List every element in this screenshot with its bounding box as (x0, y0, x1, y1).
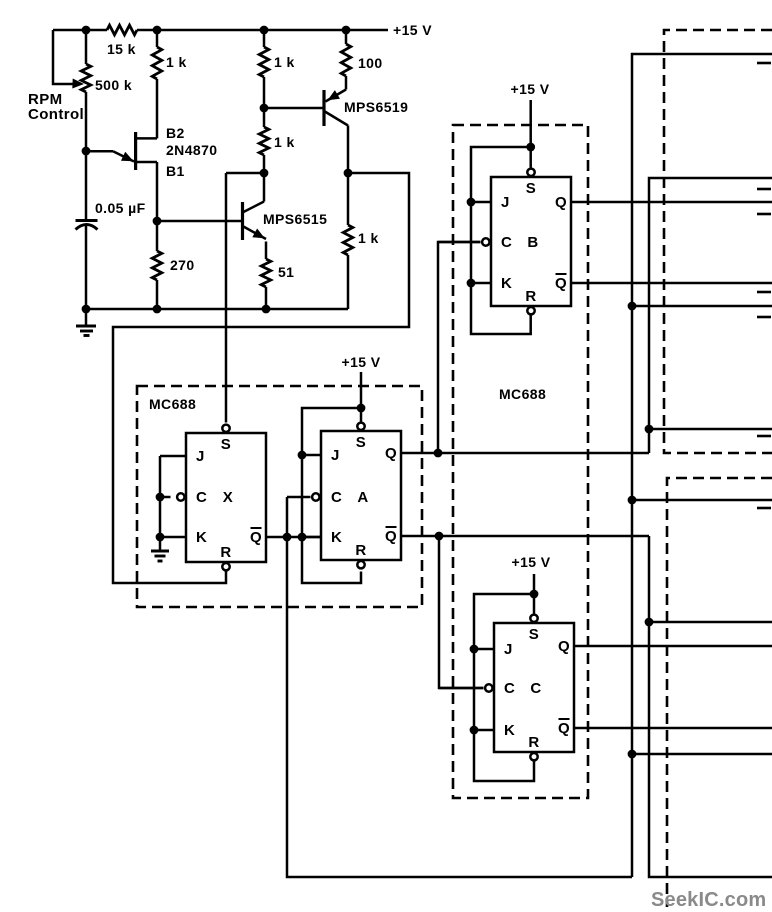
svg-text:MC688: MC688 (149, 396, 196, 412)
svg-text:2N4870: 2N4870 (166, 142, 217, 158)
svg-text:1 k: 1 k (166, 54, 187, 70)
svg-text:R: R (355, 542, 366, 559)
svg-text:51: 51 (278, 264, 294, 280)
svg-text:C: C (501, 234, 512, 251)
svg-text:K: K (331, 529, 342, 546)
svg-text:+15 V: +15 V (511, 81, 550, 97)
svg-text:270: 270 (170, 257, 195, 273)
svg-text:R: R (220, 544, 231, 561)
svg-text:Q: Q (555, 194, 567, 211)
svg-text:100: 100 (358, 55, 383, 71)
svg-text:MC688: MC688 (499, 386, 546, 402)
svg-text:MPS6519: MPS6519 (344, 99, 408, 115)
svg-text:J: J (196, 448, 205, 465)
svg-text:S: S (529, 626, 539, 643)
svg-text:Control: Control (28, 106, 84, 123)
svg-text:J: J (504, 641, 513, 658)
svg-text:Q: Q (250, 529, 262, 546)
svg-text:X: X (223, 489, 233, 506)
svg-text:SeekIC.com: SeekIC.com (651, 889, 766, 911)
svg-text:MPS6515: MPS6515 (263, 211, 327, 227)
svg-text:K: K (504, 722, 515, 739)
svg-text:R: R (528, 734, 539, 751)
svg-text:Q: Q (385, 528, 397, 545)
svg-text:A: A (357, 489, 368, 506)
svg-text:K: K (196, 529, 207, 546)
svg-text:R: R (525, 288, 536, 305)
svg-text:C: C (530, 680, 541, 697)
svg-text:500 k: 500 k (95, 77, 132, 93)
svg-text:C: C (331, 489, 342, 506)
svg-text:S: S (221, 436, 231, 453)
svg-text:1 k: 1 k (274, 54, 295, 70)
svg-text:1 k: 1 k (274, 134, 295, 150)
svg-text:B1: B1 (166, 163, 185, 179)
svg-text:Q: Q (558, 638, 570, 655)
svg-text:+15 V: +15 V (512, 554, 551, 570)
svg-text:S: S (526, 180, 536, 197)
svg-text:1 k: 1 k (358, 230, 379, 246)
svg-text:C: C (196, 489, 207, 506)
svg-text:Q: Q (555, 275, 567, 292)
svg-text:K: K (501, 275, 512, 292)
svg-text:15 k: 15 k (107, 41, 136, 57)
svg-text:Q: Q (385, 445, 397, 462)
svg-text:J: J (501, 194, 510, 211)
svg-text:J: J (331, 447, 340, 464)
svg-text:+15 V: +15 V (342, 354, 381, 370)
svg-text:Q: Q (558, 720, 570, 737)
svg-text:S: S (356, 434, 366, 451)
svg-text:0.05 µF: 0.05 µF (95, 200, 146, 216)
svg-text:B: B (527, 234, 538, 251)
svg-text:+15 V: +15 V (393, 22, 432, 38)
svg-text:C: C (504, 680, 515, 697)
svg-text:B2: B2 (166, 125, 185, 141)
